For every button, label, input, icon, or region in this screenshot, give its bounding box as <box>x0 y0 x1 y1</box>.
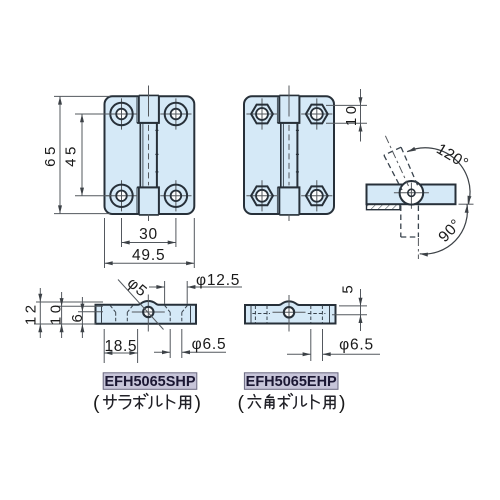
svg-text:5: 5 <box>340 285 357 293</box>
svg-text:): ) <box>195 392 202 414</box>
svg-text:30: 30 <box>139 226 158 243</box>
svg-text:EFH5065EHP: EFH5065EHP <box>246 374 337 390</box>
svg-text:65: 65 <box>42 143 59 167</box>
svg-text:10: 10 <box>48 301 65 325</box>
svg-text:6: 6 <box>69 314 86 322</box>
svg-text:12: 12 <box>23 301 40 325</box>
svg-text:φ6.5: φ6.5 <box>339 336 374 353</box>
svg-text:18.5: 18.5 <box>105 338 138 355</box>
svg-text:φ12.5: φ12.5 <box>196 272 240 289</box>
svg-text:10: 10 <box>343 102 360 126</box>
svg-text:(: ( <box>93 392 100 414</box>
svg-text:EFH5065SHP: EFH5065SHP <box>104 374 195 390</box>
svg-text:45: 45 <box>63 143 80 167</box>
svg-text:49.5: 49.5 <box>132 247 165 264</box>
svg-text:(: ( <box>237 392 244 414</box>
svg-text:): ) <box>339 392 346 414</box>
svg-text:φ6.5: φ6.5 <box>192 336 227 353</box>
